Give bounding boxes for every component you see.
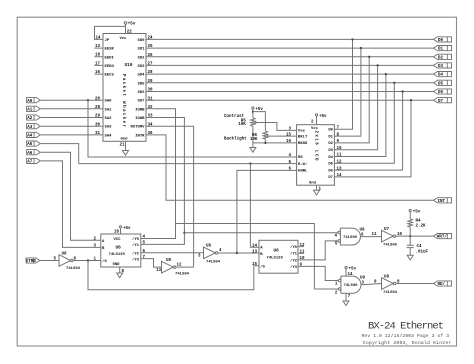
node junction D0 xyxy=(351,38,353,40)
power +5v contrast rail xyxy=(252,107,264,118)
svg-text:74LS04: 74LS04 xyxy=(175,273,190,277)
svg-text:/Y2: /Y2 xyxy=(290,258,298,263)
U10 SA pin numbers xyxy=(95,97,101,136)
svg-text:16: 16 xyxy=(286,140,292,144)
LCD left pin numbers xyxy=(286,128,292,172)
svg-text:A4: A4 xyxy=(27,135,33,139)
svg-text:EECS: EECS xyxy=(105,74,115,78)
svg-text:U8: U8 xyxy=(166,259,172,263)
connector flag D7 xyxy=(434,98,452,104)
connector flag D4 xyxy=(434,72,452,78)
wire RSTDRV from U10 down to inverter U8 output xyxy=(146,126,194,267)
svg-text:U8: U8 xyxy=(384,276,390,280)
wire D7 branch down to LCD pin 14 xyxy=(334,100,411,177)
svg-text:INT: INT xyxy=(438,200,446,204)
svg-text:+5v: +5v xyxy=(349,268,357,272)
svg-text:D2: D2 xyxy=(438,56,444,60)
svg-text:16: 16 xyxy=(114,231,120,235)
svg-text:SA1: SA1 xyxy=(105,108,113,112)
svg-text:21: 21 xyxy=(120,143,126,147)
svg-text:22: 22 xyxy=(127,31,133,35)
svg-text:/G: /G xyxy=(260,264,265,269)
connector flag D2 xyxy=(434,54,452,60)
wire D3 branch down to LCD pin 10 xyxy=(334,65,377,149)
svg-text:+5v: +5v xyxy=(413,211,421,215)
U6 left pin numbers xyxy=(93,238,96,262)
wire D2 branch down to LCD pin 9 xyxy=(334,57,369,143)
svg-text:INTR: INTR xyxy=(135,134,145,138)
wire IORB branch right to NAND2 input xyxy=(176,224,339,290)
svg-text:Gnd: Gnd xyxy=(309,180,317,185)
svg-text:D2: D2 xyxy=(328,142,333,146)
svg-text:D4: D4 xyxy=(328,156,333,160)
connector flag D3 xyxy=(434,63,452,69)
node junction D5 xyxy=(393,82,395,84)
U6 +5v on pin 16 xyxy=(114,226,131,235)
svg-text:30: 30 xyxy=(95,123,101,127)
wire D5 branch down to LCD pin 12 xyxy=(334,83,394,164)
NAND gate U9b bottom xyxy=(335,276,366,295)
svg-text:18: 18 xyxy=(95,54,101,58)
connector flag INT xyxy=(434,198,452,204)
svg-text:SD1: SD1 xyxy=(137,48,145,52)
node junction D4 xyxy=(385,73,387,75)
svg-text:EEDO: EEDO xyxy=(105,65,115,69)
svg-text:BX-24 Ethernet: BX-24 Ethernet xyxy=(368,321,444,333)
IC U6 74LS139 left body xyxy=(101,234,141,267)
wire net D1 from U10 SD1 to flag D1 xyxy=(146,47,434,49)
wire U8 out to RD flag xyxy=(396,283,434,285)
svg-text:74LS04: 74LS04 xyxy=(383,291,398,295)
node A0 junction to RS line xyxy=(87,99,297,157)
svg-text:IOWB: IOWB xyxy=(135,117,145,121)
svg-text:A7: A7 xyxy=(27,161,33,165)
svg-text:D5: D5 xyxy=(328,163,333,167)
svg-text:16: 16 xyxy=(95,71,101,75)
connector flag D5 xyxy=(434,80,452,86)
svg-text:A3: A3 xyxy=(27,126,33,130)
svg-text:U8: U8 xyxy=(206,245,212,249)
svg-text:C4: C4 xyxy=(417,245,423,249)
svg-text:D0: D0 xyxy=(438,39,444,43)
wire D0 branch down to LCD pin 7 xyxy=(334,39,352,129)
svg-text:STRB: STRB xyxy=(26,260,36,264)
svg-text:SD7: SD7 xyxy=(137,100,145,104)
wire IORB from U10 down to NAND area and Y0 of U6 xyxy=(141,109,176,239)
wire net D5 from U10 SD5 to flag D5 xyxy=(146,82,434,84)
svg-text:SA3: SA3 xyxy=(105,126,113,130)
node junction D7 xyxy=(410,99,412,101)
svg-text:14: 14 xyxy=(348,273,354,277)
wire ground rail to LCD BKGD xyxy=(253,142,297,144)
svg-text:26: 26 xyxy=(148,54,154,58)
inverter U7 74LS06 xyxy=(371,228,402,248)
svg-text:BKLT: BKLT xyxy=(298,135,308,139)
svg-text:U6: U6 xyxy=(274,249,280,254)
connector flag A7 wire down to U6 pin B xyxy=(27,158,101,247)
svg-text:U7: U7 xyxy=(384,228,390,232)
svg-text:A5: A5 xyxy=(27,143,33,147)
svg-text:D6: D6 xyxy=(328,169,333,173)
inverter U8 bottom right xyxy=(374,276,400,296)
svg-text:11: 11 xyxy=(300,250,306,254)
wire NAND2 out to U8 xyxy=(361,284,382,285)
IC U10 Packet Whacker body xyxy=(103,34,146,142)
svg-text:2.2K: 2.2K xyxy=(416,225,427,229)
wire U7 out to WRT flag xyxy=(396,235,434,237)
connector flag A0 xyxy=(27,98,103,104)
wire net D0 from U10 SD0 to flag D0 xyxy=(146,38,434,40)
connector flag D6 xyxy=(434,89,452,95)
svg-text:Vcc: Vcc xyxy=(120,37,128,41)
svg-text:17: 17 xyxy=(95,62,101,66)
wire net D3 from U10 SD3 to flag D3 xyxy=(146,64,434,66)
svg-text:SD0: SD0 xyxy=(137,39,145,43)
svg-text:Gnd: Gnd xyxy=(121,137,129,142)
svg-text:/Y2: /Y2 xyxy=(132,251,140,256)
LCD Gnd pin and ground symbol xyxy=(314,185,322,195)
svg-text:RD/: RD/ xyxy=(438,282,446,287)
svg-text:EEDI: EEDI xyxy=(105,56,115,60)
svg-text:A1: A1 xyxy=(27,108,33,112)
svg-text:D1: D1 xyxy=(438,48,444,52)
svg-text:U10: U10 xyxy=(125,63,133,68)
node junction D1 xyxy=(360,47,362,49)
svg-text:BKGD: BKGD xyxy=(298,142,308,146)
svg-text:Backlight: Backlight xyxy=(224,136,247,141)
svg-text:Rev 1.0 12/15/2003 Page 3 of: Rev 1.0 12/15/2003 Page 3 of 3 xyxy=(362,333,450,339)
wire INTR from U10 down then right to INT flag xyxy=(146,135,434,200)
connector flag STRB xyxy=(26,258,59,264)
svg-text:10K: 10K xyxy=(250,138,258,142)
node junction D2 xyxy=(368,56,370,58)
NAND gate U9a top xyxy=(334,228,365,247)
svg-text:SD4: SD4 xyxy=(137,74,145,78)
svg-text:D1: D1 xyxy=(328,135,333,139)
svg-text:.01uF: .01uF xyxy=(416,251,429,255)
svg-text:25: 25 xyxy=(148,45,154,49)
svg-text:D0: D0 xyxy=(328,129,333,133)
svg-text:+5v: +5v xyxy=(123,227,131,231)
power +5v NAND2 pin 14 xyxy=(345,266,357,277)
svg-text:A0: A0 xyxy=(27,100,33,104)
U6 ground pin 8 xyxy=(117,267,125,278)
right 139 left pin numbers xyxy=(252,244,258,267)
wire IOWB from U10 down to Y1 of U6 xyxy=(141,118,185,245)
U6 right pin numbers xyxy=(143,236,146,260)
wire net D7 from U10 SD7 to flag D7 xyxy=(146,99,434,101)
svg-text:74LS00: 74LS00 xyxy=(343,236,358,240)
svg-text:R4: R4 xyxy=(416,220,422,224)
svg-text:SD2: SD2 xyxy=(137,56,145,60)
svg-text:Contrast: Contrast xyxy=(224,115,245,119)
svg-text:D3: D3 xyxy=(438,65,444,69)
svg-text:74LS139: 74LS139 xyxy=(267,256,284,260)
svg-text:74LS139: 74LS139 xyxy=(109,253,126,257)
svg-text:D5: D5 xyxy=(438,82,444,86)
svg-text:74LS04: 74LS04 xyxy=(66,267,81,271)
svg-text:R-W/: R-W/ xyxy=(298,162,308,167)
power +5v R4 xyxy=(409,209,421,218)
ground contrast rail xyxy=(250,143,256,152)
svg-text:RS: RS xyxy=(298,156,303,160)
svg-text:12: 12 xyxy=(337,161,343,165)
svg-text:A2: A2 xyxy=(27,117,33,121)
svg-text:/Y1: /Y1 xyxy=(132,243,140,248)
svg-text:32: 32 xyxy=(148,106,154,110)
svg-text:GND: GND xyxy=(113,263,121,267)
wire net D6 from U10 SD6 to flag D6 xyxy=(146,91,434,93)
inverter U8 mid xyxy=(198,245,222,265)
svg-text:10K: 10K xyxy=(238,123,246,127)
svg-text:11: 11 xyxy=(337,154,343,158)
svg-text:D7: D7 xyxy=(438,100,444,104)
svg-text:34: 34 xyxy=(148,123,154,127)
resistor R6 backlight pot xyxy=(250,131,268,143)
connector flag A6 wire down to U6 pin A xyxy=(27,150,101,241)
wire D1 branch down to LCD pin 8 xyxy=(334,48,361,136)
inverter U8 strobe xyxy=(54,253,101,271)
connector flag A5 wire turns down to R/W line xyxy=(27,141,79,164)
wire IOWB branch to NAND1 input A xyxy=(183,232,338,234)
svg-text:13: 13 xyxy=(337,167,343,171)
svg-text:VCC: VCC xyxy=(114,238,122,242)
svg-text:SD5: SD5 xyxy=(137,82,145,86)
node strobe junction, wire down to right 139 /C xyxy=(87,259,259,290)
svg-text:D7: D7 xyxy=(328,176,333,180)
svg-text:IORB: IORB xyxy=(135,108,145,112)
NAND2 pin 7 stub xyxy=(343,293,351,305)
svg-text:/Y3: /Y3 xyxy=(132,257,140,262)
svg-text:D3: D3 xyxy=(328,149,333,153)
wire +5v branch to R6 xyxy=(253,112,266,131)
resistor R4 2.2K xyxy=(408,219,426,236)
wire R6 wiper to LCD BKLT xyxy=(266,135,297,138)
wire NAND1 out to U7 xyxy=(361,236,382,238)
svg-text:SA2: SA2 xyxy=(105,117,113,121)
svg-text:31: 31 xyxy=(148,97,154,101)
U10 gnd pin and ground symbol xyxy=(120,141,129,155)
connector flag A4 xyxy=(27,132,103,138)
svg-text:15: 15 xyxy=(286,133,292,137)
svg-text:/G: /G xyxy=(102,259,107,264)
svg-text:SD6: SD6 xyxy=(137,91,145,95)
svg-text:2x16 LCD: 2x16 LCD xyxy=(314,131,318,161)
node junction D3 xyxy=(376,64,378,66)
connector flag A3 xyxy=(27,124,103,130)
LCD right pin numbers xyxy=(337,127,343,179)
svg-text:WRT/: WRT/ xyxy=(437,235,448,240)
U10 JP pin wire loop to +5v xyxy=(95,24,126,39)
svg-text:U6: U6 xyxy=(116,245,122,250)
svg-text:U9: U9 xyxy=(360,229,366,233)
svg-text:/Y0: /Y0 xyxy=(290,245,298,250)
svg-text:10: 10 xyxy=(300,257,306,261)
svg-text:13: 13 xyxy=(252,251,258,255)
wire right 139 /Y2 up to NAND1 input B xyxy=(298,241,338,260)
svg-text:11: 11 xyxy=(371,233,377,237)
IC LCD 2x16 body xyxy=(297,125,335,186)
svg-text:SA4: SA4 xyxy=(105,134,113,138)
svg-text:Vcc: Vcc xyxy=(311,127,319,131)
right 139 right pin numbers and stubs xyxy=(298,244,305,268)
connector flag D0 xyxy=(434,37,452,43)
capacitor C4 .01uF xyxy=(407,236,429,260)
svg-text:14: 14 xyxy=(252,244,258,248)
wire R5 wiper arrow to LCD Vee xyxy=(253,121,296,130)
svg-text:74LS06: 74LS06 xyxy=(383,244,398,248)
svg-text:Vee: Vee xyxy=(298,130,306,134)
svg-text:/Y3: /Y3 xyxy=(290,265,298,270)
U10 right pin numbers xyxy=(148,37,154,137)
svg-text:28: 28 xyxy=(95,106,101,110)
svg-text:A6: A6 xyxy=(27,152,33,156)
svg-text:RSTDRV: RSTDRV xyxy=(130,126,145,130)
wire D6 branch down to LCD pin 13 xyxy=(334,92,402,171)
wire U6 /Y2 to inverter input xyxy=(141,252,204,254)
svg-text:JP: JP xyxy=(105,39,110,43)
U10 left pin stubs EESK EEDI EEDO EECS with numbers xyxy=(94,36,103,75)
connector flag A2 xyxy=(27,115,103,121)
inverter U8 low xyxy=(156,259,194,277)
svg-text:+5v: +5v xyxy=(319,115,327,119)
svg-text:74LS00: 74LS00 xyxy=(344,284,359,288)
svg-text:U8: U8 xyxy=(62,253,68,257)
svg-text:20: 20 xyxy=(95,97,101,101)
svg-text:13: 13 xyxy=(156,269,162,273)
wire D4 branch down to LCD pin 11 xyxy=(334,74,386,156)
wire net D4 from U10 SD4 to flag D4 xyxy=(146,73,434,75)
wire U6 /Y3 to inverter U8 low input xyxy=(141,259,162,268)
svg-text:ENBL: ENBL xyxy=(298,170,308,174)
svg-text:U9: U9 xyxy=(360,277,366,281)
svg-text:SD3: SD3 xyxy=(137,65,145,69)
svg-text:EESK: EESK xyxy=(105,48,115,52)
svg-text:13: 13 xyxy=(95,45,101,49)
wire net D2 from U10 SD2 to flag D2 xyxy=(146,56,434,58)
svg-text:10: 10 xyxy=(337,147,343,151)
svg-text:Copyright 2003, Donald Kinzer: Copyright 2003, Donald Kinzer xyxy=(363,340,452,346)
LCD Vcc pin to +5v xyxy=(311,114,327,125)
power +5v symbol U10 xyxy=(124,22,136,35)
connector flag WRT/ xyxy=(434,234,452,240)
svg-text:D6: D6 xyxy=(438,91,444,95)
wire right 139 /Y3 down to NAND2 input 1 xyxy=(298,266,338,280)
resistor R5 contrast pot xyxy=(238,118,255,143)
wire inverter out to ENBL riser and B pin of right 139 xyxy=(218,170,297,253)
node junction D6 xyxy=(401,90,403,92)
wire RW line A5 to LCD R-W xyxy=(79,163,297,165)
svg-text:74LS04: 74LS04 xyxy=(206,261,221,265)
svg-text:/Y1: /Y1 xyxy=(290,252,298,257)
svg-text:D4: D4 xyxy=(438,74,444,78)
wire RW line junction down to B xyxy=(236,252,238,254)
svg-text:SA0: SA0 xyxy=(105,100,113,104)
svg-text:14: 14 xyxy=(337,174,343,178)
connector flag RD/ xyxy=(434,281,452,287)
IC U6 74LS139 right body xyxy=(259,240,298,273)
svg-text:15: 15 xyxy=(252,263,258,267)
connector flag A1 xyxy=(27,106,103,112)
svg-text:12: 12 xyxy=(300,244,306,248)
svg-text:+5v: +5v xyxy=(128,23,136,27)
wire RS line junction down to A of right 139 xyxy=(249,162,259,247)
connector flag D1 xyxy=(434,46,452,52)
svg-text:/Y0: /Y0 xyxy=(132,237,140,242)
